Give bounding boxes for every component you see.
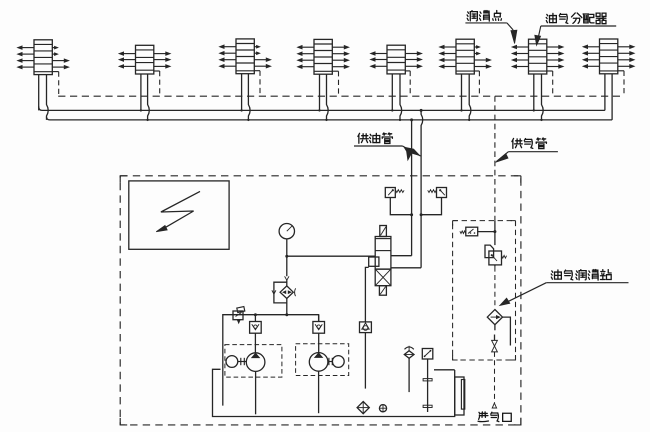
motor M1 bbox=[226, 356, 238, 368]
filter bypass loop bbox=[274, 282, 287, 303]
wire: D6 air stub (dashed) bbox=[474, 70, 479, 72]
wire: PS2 to air pipe bbox=[478, 231, 495, 233]
wire: D4 left pipe to upper bus bbox=[319, 74, 321, 110]
wire: P1 suction bbox=[255, 371, 257, 414]
pressure gauge bbox=[279, 224, 294, 239]
oil-air distributor D5 bbox=[371, 45, 422, 121]
oil-air distributor D2 bbox=[119, 45, 170, 121]
pump P1 bbox=[246, 353, 265, 372]
pressure switch PS1 bbox=[233, 311, 243, 320]
wire: oil-air bus 1 (upper) bbox=[39, 106, 605, 110]
wire: oil supply pipe B (from upper bus, hop) bbox=[421, 110, 423, 267]
wire: oil supply pipe A (from lower bus) bbox=[411, 120, 413, 256]
label: oil supply pipe (gong-you-guan) bbox=[358, 133, 392, 144]
wire: mixer bottom stub bbox=[494, 325, 496, 331]
wire: air supply bus (dashed) bbox=[58, 95, 624, 97]
wire: D8 left pipe to upper bus bbox=[604, 74, 606, 111]
wire: D8 right pipe to lower bus bbox=[611, 74, 613, 120]
wire: pump discharge manifold bbox=[223, 315, 319, 406]
shut-off valve (bowtie) bbox=[492, 340, 498, 346]
oil-air mixing valve (diamond) bbox=[487, 310, 502, 325]
injector valve top tab bbox=[380, 226, 387, 237]
relief valve V2 bbox=[437, 188, 447, 198]
label: oil-air distributor (you-qi-fen-pei-qi) bbox=[546, 13, 606, 24]
breather B bbox=[404, 351, 414, 359]
oil-air distributor D4 bbox=[298, 39, 349, 121]
wire: oil-air bus 2 (lower) bbox=[47, 117, 613, 120]
wire: D1 air stub (dashed) bbox=[52, 71, 58, 73]
label: run-hua-dian (lubrication point) bbox=[467, 10, 501, 21]
wire: P2 suction bbox=[318, 371, 320, 413]
label: oil-air lubrication station bbox=[551, 269, 611, 280]
oil-air distributor D1 bbox=[18, 40, 69, 120]
air inlet arrow bbox=[492, 403, 496, 408]
wire: air pipe through regulator bbox=[494, 221, 496, 246]
wire: D5 air stub (dashed) bbox=[405, 70, 410, 72]
wire: mixer side branch bbox=[503, 317, 511, 345]
wire: valve to gauge line bbox=[287, 255, 375, 257]
label: air inlet (jin-qi-kou) bbox=[478, 412, 511, 422]
oil-air distributor D3 bbox=[220, 39, 271, 121]
injector valve solenoid (crossed box) bbox=[375, 269, 391, 286]
drain valve (diamond with cross) bbox=[357, 402, 369, 414]
wire: breather pipe bbox=[408, 358, 410, 392]
filter F1 (diamond) bbox=[280, 286, 293, 299]
wire: D1 right pipe (hop) to lower bus bbox=[47, 75, 49, 120]
flow indicator on return line bbox=[360, 322, 372, 333]
wire: D1 left pipe to upper bus bbox=[38, 75, 40, 111]
wire: D5 right pipe (hop) to lower bus bbox=[400, 74, 402, 120]
wire: D5 left pipe to upper bus bbox=[391, 74, 393, 111]
wire: D2 air stub (dashed) bbox=[154, 70, 160, 72]
relief valve V1 bbox=[385, 188, 395, 198]
tank end box bbox=[455, 377, 464, 415]
check valve CV1 bbox=[250, 322, 262, 334]
wire: D6 right pipe (hop) to lower bus bbox=[469, 74, 471, 120]
pump group 1 dashed box bbox=[225, 345, 282, 378]
wire: pipe A to valve port bbox=[391, 255, 412, 257]
station enclosure (dashed) bbox=[120, 176, 521, 425]
pump P2 bbox=[309, 353, 328, 372]
wire: D3 left pipe to upper bus bbox=[241, 74, 243, 111]
injector valve bottom tab bbox=[379, 286, 386, 296]
wire: D4 right pipe (hop) to lower bus bbox=[327, 74, 329, 120]
wire: D3 air stub (dashed) bbox=[254, 70, 260, 72]
check valve CV2 bbox=[313, 322, 325, 334]
air filter-regulator FR bbox=[485, 245, 494, 258]
wire: filter to pump manifold bbox=[286, 299, 288, 315]
wire: V1 to pipe A bbox=[390, 198, 411, 215]
wire: D3 right pipe (hop) to lower bus bbox=[248, 74, 250, 120]
oil-air distributor D6 bbox=[440, 39, 491, 121]
drain plug (circle with cross) bbox=[379, 405, 386, 412]
injector valve side block bbox=[369, 257, 379, 266]
injector valve body bbox=[375, 237, 391, 270]
oil tank bbox=[213, 369, 455, 416]
level gauge LG bbox=[422, 349, 433, 360]
air pressure switch PS2 bbox=[466, 227, 478, 236]
wire: D7 right pipe (hop) to lower bus bbox=[542, 74, 544, 120]
wire: D7 air stub (dashed) bbox=[547, 70, 553, 72]
wire: D8 air stub (dashed) bbox=[618, 70, 624, 72]
wire: valve return line bbox=[365, 267, 368, 322]
motor M2 bbox=[332, 356, 344, 368]
pump group 2 dashed box bbox=[296, 344, 349, 376]
wire: D2 left pipe to upper bus bbox=[140, 74, 142, 110]
wire: V2 to pipe B bbox=[421, 198, 441, 215]
wire: D2 right pipe (hop) to lower bus bbox=[148, 74, 150, 120]
wire: D6 left pipe to upper bus bbox=[461, 74, 463, 110]
wire: D7 left pipe to upper bus bbox=[533, 74, 535, 110]
check arrow bbox=[285, 276, 289, 280]
electric control box bbox=[129, 181, 229, 249]
wire: D4 air stub (dashed) bbox=[332, 70, 338, 72]
lightning arrow symbol bbox=[161, 191, 200, 228]
wire: pipe B to valve port bbox=[391, 267, 421, 269]
label: air supply pipe (gong-qi-guan) bbox=[512, 138, 546, 149]
wire: air supply pipe (dashed vertical) bbox=[494, 96, 496, 220]
oil-air distributor D8 bbox=[583, 39, 634, 120]
air unit enclosure (dashed) bbox=[453, 221, 516, 360]
wire: air inlet line (dashed) bbox=[494, 352, 496, 403]
oil-air distributor D7 bbox=[512, 39, 563, 121]
wire: gauge line down to filter bbox=[286, 256, 288, 276]
